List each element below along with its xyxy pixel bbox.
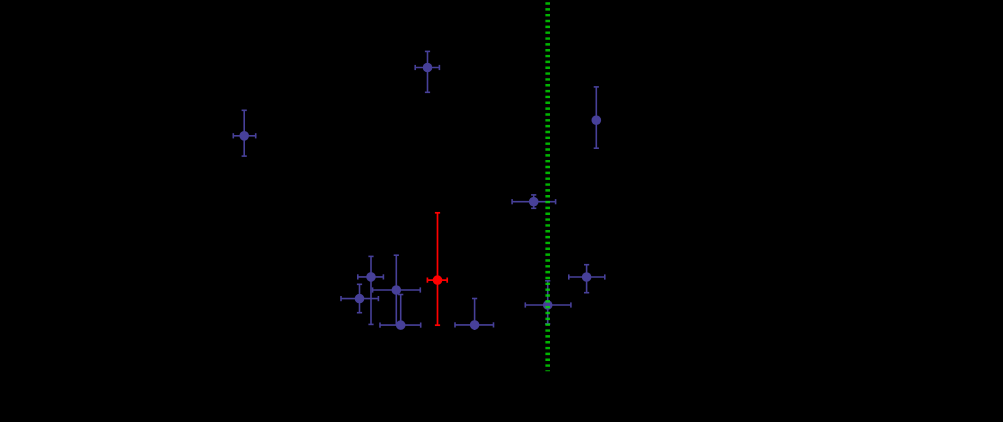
data point P1 marker (239, 131, 249, 141)
data point P2 marker (423, 63, 433, 73)
data point C marker (392, 285, 402, 295)
data point P5 error bars (569, 265, 605, 293)
data point P2 error bars (415, 51, 439, 92)
data point B error bars (341, 284, 378, 312)
data point F marker (543, 300, 553, 310)
green dotted vertical reference line (545, 1, 550, 371)
data point P3 error bars (594, 87, 599, 148)
data point D marker (396, 320, 406, 330)
red data point marker (433, 275, 443, 285)
data point D error bars (380, 295, 421, 328)
red data point error bars (427, 213, 447, 325)
data point P4 marker (529, 197, 539, 207)
data point A error bars (358, 256, 384, 324)
data point F error bars (525, 281, 571, 324)
data point E marker (470, 320, 480, 330)
data point A marker (366, 272, 376, 282)
data point B marker (355, 294, 365, 304)
data point P1 error bars (233, 110, 255, 156)
data point C error bars (373, 255, 421, 325)
data point P3 marker (592, 115, 602, 125)
data point P5 marker (582, 272, 592, 282)
data point E error bars (455, 299, 494, 331)
data point P4 error bars (512, 195, 556, 208)
